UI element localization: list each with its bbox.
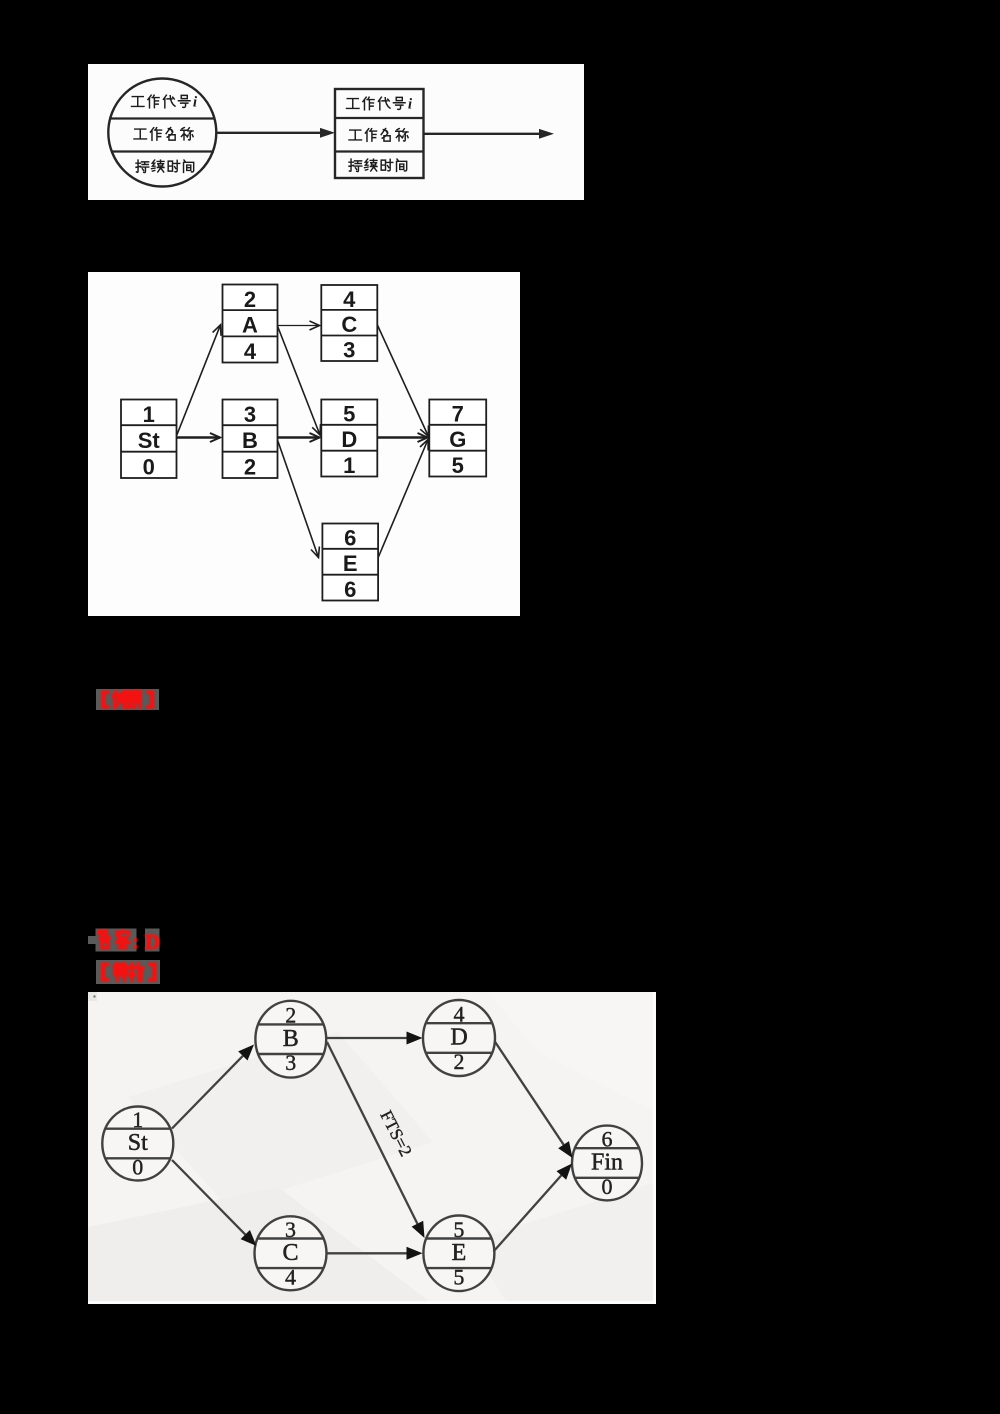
wire D-G bbox=[377, 433, 427, 442]
svg-text:4: 4 bbox=[285, 1264, 296, 1289]
circle row1 工作代号i bbox=[132, 97, 144, 107]
svg-text:3: 3 bbox=[343, 338, 355, 363]
wire B-E FTS=2 bbox=[327, 1042, 425, 1238]
svg-text:E: E bbox=[452, 1240, 467, 1266]
svg-text:0: 0 bbox=[132, 1155, 143, 1180]
wire D-Fin bbox=[495, 1041, 573, 1158]
svg-text:2: 2 bbox=[244, 454, 256, 479]
wire C-E bbox=[327, 1247, 423, 1260]
node D bbox=[321, 400, 377, 479]
circle row2 工作名称 bbox=[134, 129, 146, 139]
svg-text:4: 4 bbox=[244, 339, 257, 364]
node A bbox=[223, 285, 278, 364]
svg-text:5: 5 bbox=[453, 1264, 464, 1289]
rect row1 工作代号i bbox=[347, 99, 359, 109]
svg-text:D: D bbox=[145, 930, 160, 954]
node C bbox=[321, 285, 377, 363]
svg-text:5: 5 bbox=[343, 402, 355, 427]
svg-text:2: 2 bbox=[285, 1003, 296, 1028]
svg-text:St: St bbox=[138, 428, 161, 453]
circle node legend bbox=[108, 79, 216, 187]
svg-text:5: 5 bbox=[453, 1217, 464, 1242]
svg-text:6: 6 bbox=[344, 577, 356, 602]
wire B-E bbox=[278, 440, 320, 558]
wire St-B bbox=[172, 1045, 254, 1129]
svg-text:5: 5 bbox=[452, 453, 464, 478]
wire C-G bbox=[377, 325, 428, 437]
wire E-G bbox=[378, 440, 428, 558]
svg-text:2: 2 bbox=[454, 1049, 465, 1074]
node E bbox=[423, 1216, 494, 1292]
svg-text:B: B bbox=[242, 428, 258, 453]
tag 【解析】 bbox=[96, 960, 160, 984]
svg-text:St: St bbox=[128, 1130, 148, 1156]
svg-text:D: D bbox=[450, 1025, 467, 1051]
svg-text:3: 3 bbox=[244, 402, 256, 427]
node St bbox=[121, 400, 177, 480]
svg-text:3: 3 bbox=[285, 1217, 296, 1242]
wire St-A bbox=[177, 325, 221, 436]
wire A-D bbox=[278, 326, 321, 435]
svg-text:3: 3 bbox=[285, 1050, 296, 1075]
svg-text:G: G bbox=[449, 427, 466, 452]
svg-text:6: 6 bbox=[344, 526, 356, 551]
node B bbox=[223, 400, 278, 480]
node C bbox=[255, 1216, 327, 1290]
svg-text:D: D bbox=[341, 427, 357, 452]
svg-text:4: 4 bbox=[454, 1002, 465, 1027]
answer line 答案:D bbox=[88, 936, 96, 944]
svg-text:C: C bbox=[341, 312, 357, 337]
node D bbox=[423, 1000, 495, 1076]
rect node legend bbox=[335, 89, 424, 178]
svg-text:B: B bbox=[283, 1026, 299, 1052]
wire St-C bbox=[172, 1160, 257, 1246]
wire B-D bbox=[327, 1032, 423, 1045]
wire St-B bbox=[177, 433, 221, 442]
svg-text:A: A bbox=[242, 313, 258, 338]
svg-text:Fin: Fin bbox=[591, 1150, 623, 1176]
svg-text:1: 1 bbox=[143, 402, 155, 427]
wire A-C bbox=[278, 321, 320, 330]
node E bbox=[322, 524, 378, 603]
rect row3 持续时间 bbox=[349, 159, 362, 172]
svg-text:1: 1 bbox=[343, 453, 355, 478]
arrow circle->rect bbox=[218, 132, 323, 134]
tag 【例题】 bbox=[96, 689, 159, 710]
node B bbox=[255, 1001, 326, 1078]
node Fin bbox=[572, 1126, 642, 1201]
svg-text:2: 2 bbox=[244, 287, 256, 312]
svg-text:1: 1 bbox=[132, 1107, 143, 1132]
svg-text:0: 0 bbox=[602, 1174, 613, 1199]
svg-text:4: 4 bbox=[343, 287, 356, 312]
node St bbox=[102, 1107, 173, 1181]
rect row2 工作名称 bbox=[349, 130, 361, 140]
wire E-Fin bbox=[494, 1164, 573, 1252]
arrow rect->out bbox=[424, 133, 541, 135]
node G bbox=[429, 400, 486, 479]
svg-text:E: E bbox=[343, 551, 358, 576]
wire B-D bbox=[278, 433, 320, 442]
svg-text:6: 6 bbox=[602, 1127, 613, 1152]
faint background shading bbox=[128, 1032, 433, 1207]
svg-text:7: 7 bbox=[452, 402, 464, 427]
circle row3 持续时间 bbox=[136, 160, 149, 173]
svg-text:0: 0 bbox=[143, 454, 155, 479]
svg-text:C: C bbox=[282, 1240, 298, 1266]
